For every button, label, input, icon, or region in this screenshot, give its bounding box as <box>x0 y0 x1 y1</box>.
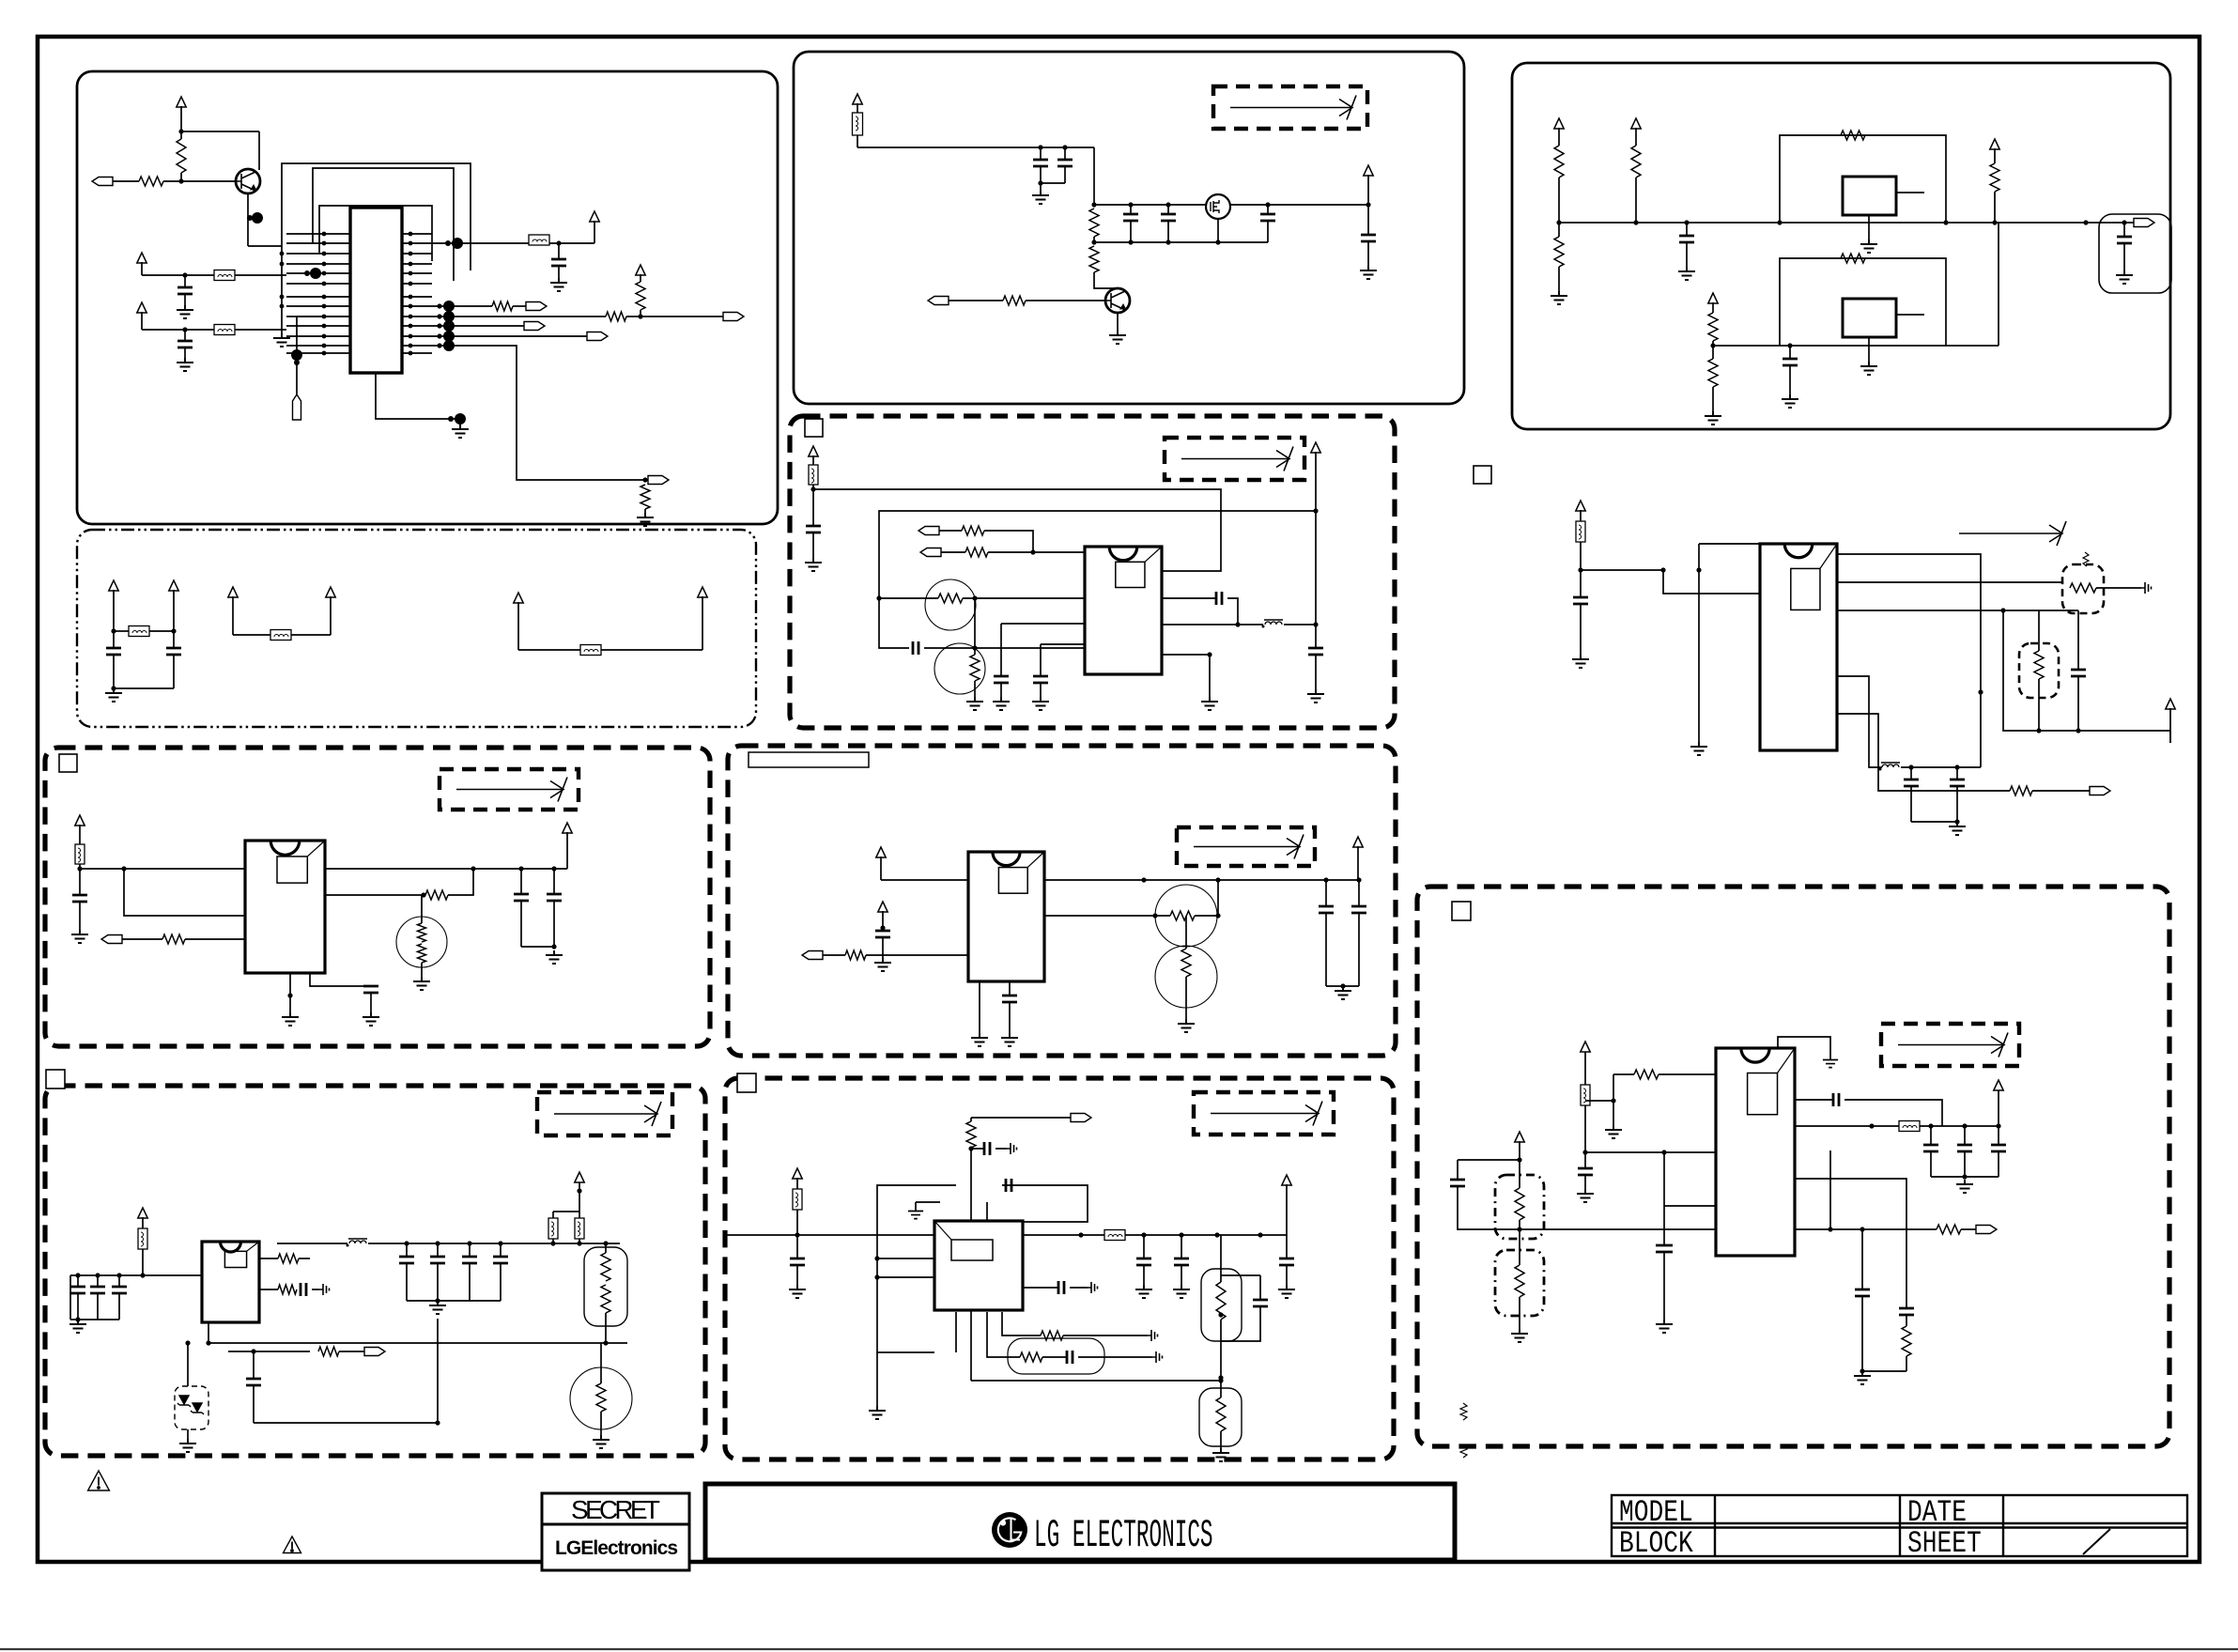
power arrow A2 <box>1631 118 1641 129</box>
junction <box>322 324 327 329</box>
junction <box>75 1317 80 1321</box>
power arrow VDD1 <box>137 253 147 263</box>
capacitor C18 <box>1033 676 1048 683</box>
wire <box>558 243 560 259</box>
wire <box>970 1310 972 1381</box>
junction <box>518 866 523 871</box>
photo-resistor circle PR2 <box>934 643 985 694</box>
termination C36 <box>319 1284 330 1295</box>
junction <box>1908 764 1913 769</box>
svg-text:DATE: DATE <box>1907 1496 1967 1530</box>
junction <box>1661 1150 1666 1154</box>
capacitor C39 <box>790 1258 805 1265</box>
wire <box>1367 241 1369 266</box>
wire <box>142 329 214 331</box>
inductor L3 <box>348 1238 367 1240</box>
resistor R20 <box>938 594 963 603</box>
junction <box>550 1241 555 1245</box>
wire mosfet source <box>1217 219 1219 242</box>
resistor R26 <box>425 890 448 900</box>
resistor R18 <box>962 526 984 535</box>
wire pin right 12 <box>402 345 432 347</box>
ferrite bead FB4 <box>129 626 149 637</box>
wire <box>1064 166 1066 183</box>
photo-resistor circle PR1 <box>925 579 976 630</box>
ground U10t <box>1823 1056 1838 1068</box>
wire <box>552 1239 554 1243</box>
wire pin left 8 <box>286 305 350 307</box>
ground U6a <box>282 1012 299 1026</box>
wire <box>1558 128 1560 146</box>
snubber pill <box>1008 1338 1104 1374</box>
ground U4 <box>1201 697 1218 710</box>
photo-resistor circle PR4 <box>1155 946 1217 1008</box>
wire <box>500 1243 502 1257</box>
ground S2 <box>1511 1329 1528 1342</box>
wire <box>173 631 175 648</box>
ground C3 <box>177 358 193 371</box>
resistor R29 <box>845 950 866 960</box>
wire gnd stub <box>289 973 291 1012</box>
wire <box>1130 205 1132 214</box>
resistor R7 <box>1089 208 1099 237</box>
wire u10 o3 <box>1795 1179 1906 1308</box>
scan artifact line bottom <box>0 1648 2238 1650</box>
junction <box>409 241 413 246</box>
ground U1 left <box>273 333 290 347</box>
wire <box>879 597 938 599</box>
junction <box>280 295 285 300</box>
junction <box>551 866 556 871</box>
wire <box>339 1351 364 1352</box>
capacitor C35 <box>112 1287 127 1293</box>
capacitor bank7 <box>1991 1145 2006 1151</box>
junction <box>206 1340 210 1345</box>
wire bottom 6 <box>971 1380 1221 1382</box>
wire <box>77 1275 79 1287</box>
power arrow P2 <box>169 580 178 591</box>
wire <box>113 655 115 688</box>
junction <box>1128 239 1133 244</box>
capacitor C32 <box>1002 996 1017 1002</box>
wire <box>1070 1287 1088 1289</box>
wire out bus 6 <box>1023 1234 1104 1236</box>
wire in bus <box>70 1274 202 1276</box>
block text <box>1619 1527 1693 1561</box>
wire <box>141 312 143 330</box>
wire tab <box>1896 314 1924 316</box>
wire reg2 bus <box>1713 345 1999 347</box>
ground C28 <box>363 1012 379 1026</box>
junction <box>322 282 327 286</box>
power arrow A3 <box>1990 139 1999 149</box>
junction <box>1860 1368 1864 1373</box>
connector DIM <box>1071 1114 1091 1122</box>
junction <box>435 1298 440 1303</box>
section label 3 <box>59 754 77 772</box>
wire <box>963 597 1085 599</box>
wire pin right 9 <box>402 316 432 317</box>
load box pill3 <box>1199 1388 1242 1446</box>
ground C47 <box>1656 1320 1673 1333</box>
wire sense <box>228 1351 310 1352</box>
wire <box>1162 624 1238 625</box>
power arrow VCC2 <box>590 211 599 222</box>
junction <box>435 1420 440 1425</box>
wire left row 7a <box>1585 1151 1716 1153</box>
wire <box>970 1148 972 1221</box>
power arrow VDD2 <box>137 302 147 313</box>
wire <box>1325 913 1327 986</box>
wire <box>1930 1151 1932 1177</box>
wire <box>1911 821 1957 823</box>
wire <box>916 1201 940 1203</box>
wire left rail <box>281 234 283 333</box>
power arrow P5 <box>514 593 523 603</box>
wire <box>1686 242 1688 267</box>
wire drop <box>1093 147 1095 205</box>
block inverter dashed outline <box>725 1078 1394 1459</box>
junction big <box>443 320 455 332</box>
wire <box>258 131 260 170</box>
wire in bus 6 <box>725 1234 934 1236</box>
wire <box>80 868 245 870</box>
capacitor C14 <box>1783 359 1798 365</box>
ferrite bead FB3 <box>214 325 235 335</box>
wire <box>1558 267 1560 291</box>
junction <box>1152 913 1157 918</box>
ground C13 <box>2116 270 2133 284</box>
junction <box>1313 508 1318 513</box>
wire pin left 7 <box>286 296 350 298</box>
junction <box>116 1273 121 1277</box>
capacitor C46b <box>1058 1281 1064 1294</box>
junction <box>140 1273 145 1277</box>
wire u7 gnd <box>979 981 980 1033</box>
resistor R31 <box>1181 949 1191 977</box>
resistor R35 <box>601 1285 610 1313</box>
capacitor C2 <box>177 287 193 294</box>
signal arrow box 4 <box>1177 827 1315 866</box>
wire <box>297 316 350 317</box>
wire pin right 5 <box>402 272 432 274</box>
wire s bot <box>1519 1297 1520 1329</box>
ground loop <box>869 1406 886 1419</box>
wire <box>1712 341 1714 346</box>
wire collector <box>181 131 259 132</box>
capacitor C47 <box>1656 1245 1673 1252</box>
sheet text <box>1907 1527 1982 1561</box>
ground C32 <box>1001 1033 1018 1046</box>
junction <box>280 252 285 256</box>
wire pin left 1 <box>286 233 350 235</box>
junction <box>95 1273 100 1277</box>
power arrow B6out <box>1282 1175 1291 1185</box>
capacitor C24 <box>1950 780 1965 786</box>
wire <box>1181 1235 1182 1258</box>
junction <box>409 262 413 267</box>
wire s top <box>1519 1160 1520 1188</box>
resistor R11 <box>1554 237 1564 267</box>
section label R <box>1474 466 1491 484</box>
wire <box>184 347 186 358</box>
wire s mid <box>1519 1220 1520 1265</box>
ground C14 <box>1782 394 1798 408</box>
resistor squiggle b <box>1460 1446 1467 1458</box>
termination R41 <box>1148 1330 1158 1341</box>
junction <box>77 866 82 871</box>
signal arrow box 6 <box>1194 1092 1334 1135</box>
ground C24 <box>1949 822 1966 835</box>
wire loop2 <box>313 168 454 281</box>
wire <box>70 1319 119 1320</box>
wire <box>1040 147 1042 160</box>
junction <box>409 271 413 276</box>
block DCDC2 dashed outline <box>45 748 710 1046</box>
wire drop <box>974 598 976 648</box>
junction <box>322 232 327 237</box>
wire <box>1267 205 1269 214</box>
wire <box>1920 1125 1999 1127</box>
wire <box>1267 221 1269 242</box>
capacitor C22 <box>2071 670 2086 676</box>
wire loop1 <box>282 163 471 270</box>
junction <box>182 272 187 277</box>
wire <box>1001 623 1085 625</box>
resistor R45 <box>1515 1265 1524 1297</box>
resistor R4 <box>606 312 626 321</box>
ground TH2 <box>593 1435 610 1448</box>
junction <box>642 477 647 482</box>
wire <box>370 993 372 1012</box>
wire <box>1238 624 1263 625</box>
wire <box>2003 610 2078 731</box>
resistor R16 <box>1708 359 1718 387</box>
wire fb7 left <box>1520 1228 1716 1230</box>
wire lower bus <box>208 1342 627 1344</box>
wire <box>1220 1320 1222 1378</box>
wire <box>1829 1150 1831 1229</box>
wire <box>421 963 423 977</box>
junction <box>1218 1375 1223 1380</box>
wire stub <box>955 1312 957 1352</box>
ferrite bead FB10 <box>75 844 85 864</box>
wire <box>1686 223 1688 236</box>
capacitor C42 <box>1174 1258 1189 1265</box>
secret stamp box <box>542 1493 689 1570</box>
junction <box>2122 220 2126 224</box>
ground C12 <box>1678 267 1695 280</box>
wire <box>605 1313 607 1343</box>
capacitor C12 <box>1679 236 1694 242</box>
junction <box>322 241 327 246</box>
connector OUT2 <box>723 313 744 321</box>
connector EN4 <box>802 951 823 960</box>
capacitor C31 <box>1351 906 1366 913</box>
signal arrow R <box>1959 521 2066 546</box>
wire pin right 1 <box>402 233 432 235</box>
LG ELECTRONICS text <box>1034 1514 1213 1558</box>
resistor R6 <box>641 485 650 509</box>
ground C15 <box>805 558 822 571</box>
connector CTRL <box>928 297 949 305</box>
wire <box>1663 1252 1665 1320</box>
ground PR4 <box>1178 1019 1195 1032</box>
capacitor bank <box>462 1257 477 1263</box>
ferrite bead FB8 <box>809 465 818 485</box>
junction <box>111 628 116 633</box>
junction <box>1340 983 1345 988</box>
wire <box>432 242 529 244</box>
wire <box>437 1243 439 1257</box>
ESD diode box <box>175 1386 208 1429</box>
inductor L2 <box>1881 762 1900 764</box>
wire <box>812 455 814 465</box>
capacitor C36 <box>301 1283 306 1296</box>
junction <box>1215 913 1220 918</box>
wire <box>291 634 331 636</box>
wire <box>600 1412 602 1435</box>
wire <box>2123 223 2125 237</box>
junction <box>1258 1232 1262 1237</box>
junction <box>968 1146 973 1150</box>
section label 7 <box>1452 902 1471 920</box>
junction <box>1207 652 1212 656</box>
capacitor C44 <box>1253 1300 1268 1306</box>
junction <box>551 944 556 949</box>
wire pin left 11 <box>286 335 350 337</box>
power arrow VCC3 <box>636 265 645 275</box>
wire <box>1837 581 2062 583</box>
junction <box>1038 180 1042 185</box>
ground bank <box>429 1301 446 1314</box>
wire <box>1699 543 1760 545</box>
resistor R34 <box>601 1253 610 1281</box>
resistor R1 <box>177 139 186 173</box>
wire <box>553 1211 579 1212</box>
wire u7 cap <box>1009 981 1011 996</box>
wire pin left 3 <box>286 253 350 255</box>
shield box cap <box>2099 214 2171 293</box>
block bead-filter outline <box>77 530 756 727</box>
load box pill2 <box>1201 1269 1242 1341</box>
ground R43 <box>1605 1125 1622 1138</box>
wire <box>118 1275 120 1287</box>
wire pin right 8 <box>402 305 432 307</box>
junction <box>1235 622 1240 626</box>
resistor R32 <box>278 1254 299 1263</box>
wire <box>122 938 162 940</box>
wire <box>1635 178 1637 223</box>
wire pin left 13 <box>286 352 350 354</box>
capacitor C16 <box>913 641 918 655</box>
power arrow R1 <box>1576 501 1585 511</box>
wire <box>235 274 286 276</box>
power arrow B5 <box>138 1208 147 1218</box>
junction <box>1869 1123 1874 1128</box>
ferrite bead FB2 <box>214 270 235 281</box>
wire <box>432 316 606 317</box>
junction <box>1179 1232 1183 1237</box>
resistor R36 <box>596 1383 606 1412</box>
resistor R46 <box>1937 1225 1961 1234</box>
wire <box>1357 846 1359 880</box>
junction <box>1218 1378 1223 1382</box>
connector OUT1 <box>526 302 547 311</box>
capacitor C10 <box>1260 214 1275 221</box>
ground C51 <box>1854 1371 1871 1384</box>
wire <box>114 687 174 689</box>
ferrite bead FB17 <box>1899 1121 1920 1132</box>
power arrow B5out <box>575 1172 584 1182</box>
IC U1 main regulator <box>350 208 402 373</box>
wire <box>702 596 703 650</box>
junction <box>322 262 327 267</box>
IC U5 audio amp <box>1760 544 1837 750</box>
wire <box>1041 643 1085 645</box>
junction big <box>443 311 455 322</box>
capacitor C38 <box>984 1142 990 1155</box>
capacitor C6 <box>1033 160 1048 166</box>
wire out bus <box>325 868 567 870</box>
wire M loop <box>879 511 1316 648</box>
junction <box>322 334 327 339</box>
wire <box>1580 542 1582 597</box>
ferrite bead FB13 <box>575 1218 584 1239</box>
wire <box>1367 205 1369 235</box>
wire <box>2078 730 2170 732</box>
capacitor bank <box>430 1257 445 1263</box>
resistor R40 <box>1216 1397 1226 1431</box>
wire <box>552 1212 554 1218</box>
wire <box>1931 1176 1999 1178</box>
resistor squiggle a <box>1460 1403 1467 1420</box>
power arrow A4 <box>1708 293 1718 303</box>
warning symbol 1 <box>88 1471 110 1490</box>
ground C29 <box>874 958 891 971</box>
junction big <box>252 212 263 224</box>
wire <box>180 106 182 139</box>
wire <box>1315 655 1317 689</box>
wire <box>469 1243 471 1257</box>
junction <box>435 1241 440 1245</box>
junction <box>2083 220 2088 224</box>
junction <box>467 1241 471 1245</box>
date text <box>1907 1496 1967 1530</box>
block dual-regulator outline <box>1512 63 2170 429</box>
wire <box>984 531 1033 552</box>
wire <box>233 634 270 636</box>
svg-text:BLOCK: BLOCK <box>1619 1527 1693 1561</box>
junction big <box>291 349 302 361</box>
wire <box>1712 346 1714 359</box>
wire pin right 10 <box>402 325 432 327</box>
connector VOUT1 <box>2134 219 2154 227</box>
junction <box>404 1241 409 1245</box>
junction <box>1928 1123 1933 1128</box>
wire <box>1956 786 1958 822</box>
wire tab <box>1896 192 1924 193</box>
resistor R19 <box>965 548 988 557</box>
ground U3 <box>1860 362 1877 375</box>
ground C11 <box>1360 266 1377 279</box>
junction <box>1710 343 1715 347</box>
wire <box>1009 1002 1011 1033</box>
wire <box>248 245 282 247</box>
junction big <box>455 413 466 425</box>
junction <box>876 595 881 600</box>
power arrow B3 <box>75 815 85 826</box>
